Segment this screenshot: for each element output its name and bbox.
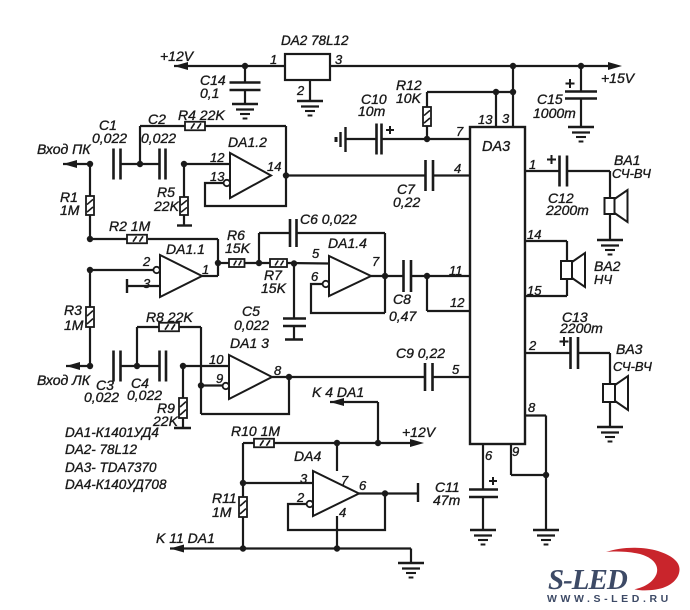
svg-text:BA3: BA3 [616, 341, 643, 357]
resistor R2 1M [90, 235, 218, 244]
capacitor C12 2200m [547, 155, 567, 187]
ground below pin 8/9 [533, 530, 559, 545]
svg-text:12: 12 [450, 295, 465, 310]
pin 7 label [372, 254, 380, 269]
svg-text:3: 3 [143, 276, 151, 291]
pin 15 label of DA3 [527, 283, 542, 298]
op-amp DA4 [313, 471, 359, 516]
pin 3 label of DA3 [502, 111, 510, 126]
wire to DA1.3 pin 10 [183, 365, 229, 367]
label R12 10K [396, 77, 422, 106]
svg-text:C2: C2 [148, 111, 166, 127]
svg-text:Вход ПК: Вход ПК [37, 141, 91, 157]
wire rail to ground [410, 549, 412, 564]
svg-text:1000m: 1000m [533, 105, 576, 121]
label C12 2200m [545, 190, 589, 218]
parts list line 4 [65, 477, 167, 492]
pin 12 label [450, 295, 465, 310]
node jumper/pin3 riser [510, 89, 516, 95]
op-amp DA1.3 [229, 355, 272, 399]
wire DA3 pin 1 to C12 [525, 170, 560, 172]
svg-text:2: 2 [296, 490, 305, 505]
node DA1.2 output [283, 172, 289, 178]
wire DA3 pin 8 [525, 416, 546, 531]
svg-text:Вход ЛК: Вход ЛК [37, 372, 91, 388]
wire C9 to DA3 pin 5 [433, 376, 471, 378]
svg-text:6: 6 [311, 269, 319, 284]
wire to DA1.2 pin 12 [184, 163, 230, 165]
label +12V (bottom) [402, 424, 437, 440]
pin 5 label [312, 246, 320, 261]
label DA4 [294, 448, 321, 464]
svg-text:22K: 22K [153, 198, 180, 214]
svg-text:1M: 1M [212, 504, 232, 520]
resistor R7 15K [270, 259, 287, 267]
label R6 15K [225, 227, 251, 256]
pin 6 label [311, 269, 319, 284]
ground below C11 [470, 530, 496, 545]
pin 3 label [300, 471, 308, 486]
wire C1 to C2 [121, 163, 160, 165]
label DA1.4 [328, 235, 367, 251]
wire connector to C10 [346, 138, 376, 140]
resistor R12 10K [423, 92, 431, 139]
wire DA1.2 feedback loop [205, 176, 286, 207]
wire BA3 to ground [609, 402, 611, 427]
inverting input circle DA1.3 pin 9 [223, 383, 229, 389]
node C15 junction [578, 63, 584, 69]
svg-text:13: 13 [478, 112, 493, 127]
node K4 junction [375, 440, 381, 446]
svg-text:11: 11 [449, 263, 463, 278]
wire R8 to feedback riser [179, 327, 201, 414]
svg-text:12: 12 [210, 150, 225, 165]
pin 9 label of DA3 [512, 444, 519, 459]
svg-text:DA1-К1401УД4: DA1-К1401УД4 [65, 425, 159, 440]
wire +15V input rail [330, 62, 622, 70]
svg-text:9: 9 [216, 371, 223, 386]
label C7 0,22 [393, 181, 420, 210]
svg-text:DA1.1: DA1.1 [166, 241, 205, 257]
power amplifier DA3 TDA7370 [470, 127, 525, 444]
label R8 22K [146, 309, 193, 325]
pin 11 label [449, 263, 463, 278]
wire K 11 DA1 rail [170, 545, 411, 553]
wire DA3 pin 2 to C13 [525, 352, 571, 354]
pin 7 label of DA3 [456, 124, 464, 139]
capacitor C8 0,47 [404, 260, 412, 292]
capacitor C9 0,22 [425, 363, 433, 391]
resistor R8 22K [159, 323, 179, 332]
ground below DA2 pin 2 [297, 101, 323, 116]
capacitor C2 0,022 [141, 130, 176, 180]
wire K 4 DA1 [330, 398, 378, 443]
svg-text:0,47: 0,47 [389, 308, 417, 324]
node pin8-pin9 [543, 472, 549, 478]
pin 2 label [296, 490, 305, 505]
arrow +12V (bottom) [410, 439, 424, 447]
svg-text:2200m: 2200m [545, 202, 589, 218]
svg-text:1: 1 [270, 52, 277, 67]
input arrow Вход ПК [63, 160, 90, 168]
pin 12 label [210, 150, 225, 165]
wire C3 to C4 [121, 365, 160, 367]
svg-text:7: 7 [341, 473, 349, 488]
svg-text:6: 6 [359, 478, 367, 493]
label C5 0,022 [234, 303, 269, 333]
label DA2 78L12 [281, 33, 349, 48]
svg-text:0,022: 0,022 [234, 317, 269, 333]
wire DA4 output [359, 492, 418, 494]
svg-text:DA1.2: DA1.2 [228, 134, 267, 150]
node jumper/pin13 [493, 89, 499, 95]
node DA4 pin 7 junction [334, 440, 340, 446]
input arrow Вход ЛК [66, 362, 90, 370]
wire BA1 to ground [609, 214, 611, 240]
pin 13 label [210, 169, 225, 184]
node input ПК [87, 161, 93, 167]
logo text WWW.S-LED.RU [547, 593, 672, 605]
pin 10 label [209, 352, 224, 367]
capacitor C6 0,022 [290, 219, 297, 247]
capacitor C10 10m (polarized) [377, 124, 395, 155]
wire DA3 pin 14 to BA2 [525, 241, 567, 261]
label C13 2200m [559, 309, 603, 336]
svg-text:S-LED: S-LED [548, 564, 628, 596]
svg-text:5: 5 [452, 362, 460, 377]
wire C6 riser [259, 233, 290, 263]
svg-text:4: 4 [454, 161, 461, 176]
op-amp DA1.2 [230, 153, 271, 198]
label DA1.1 [166, 241, 205, 257]
svg-text:0,022: 0,022 [141, 130, 176, 146]
wire C8 to split node [411, 275, 470, 277]
svg-text:0,022: 0,022 [92, 130, 127, 146]
inverting input circle DA1.1 pin 2 [153, 267, 159, 273]
svg-text:+15V: +15V [601, 70, 636, 86]
wire +12V output rail from DA2 pin 1 [174, 62, 285, 70]
node C3-C4 junction [134, 363, 140, 369]
parts list line 1 [65, 425, 159, 440]
svg-text:DA2 78L12: DA2 78L12 [281, 33, 349, 48]
pin 14 label of DA3 [527, 227, 541, 242]
parts list line 3 [65, 460, 157, 475]
svg-text:14: 14 [267, 159, 281, 174]
ground below BA1 [597, 240, 623, 255]
label C11 47m [433, 479, 461, 508]
parts list line 2 [65, 442, 138, 457]
svg-text:R8 22K: R8 22K [146, 309, 193, 325]
node input ЛК [87, 363, 93, 369]
node +15V rail to DA3 pin 3 [510, 63, 516, 69]
svg-text:8: 8 [528, 400, 536, 415]
wire DA3 pin 9 [511, 444, 546, 475]
inverting input circle DA1.2 pin 13 [224, 180, 230, 186]
label BA3 СЧ-ВЧ [613, 341, 652, 374]
pin 3 label of DA2 [335, 52, 343, 67]
svg-text:DA2- 78L12: DA2- 78L12 [65, 442, 138, 457]
wire riser to R4 [140, 126, 185, 164]
node C1-C2 junction [137, 161, 143, 167]
wire DA1.1 output [202, 275, 218, 277]
wire DA1.4 feedback loop [311, 284, 385, 313]
label Вход ПК [37, 141, 91, 157]
pin 2 stem of DA2 [296, 80, 310, 101]
svg-text:1: 1 [529, 157, 536, 172]
wire to DA1.4 pin 5 [287, 262, 329, 265]
capacitor C7 0,22 [426, 160, 434, 191]
svg-text:+12V: +12V [402, 424, 437, 440]
label R3 1M [64, 302, 84, 333]
label C8 0,47 [389, 291, 417, 324]
node pin 9 / riser [198, 382, 204, 388]
capacitor C1 0,022 [92, 117, 127, 180]
resistor R1 1M [86, 164, 94, 239]
resistor R6 15K [229, 259, 245, 267]
svg-text:WWW.S-LED.RU: WWW.S-LED.RU [547, 593, 672, 605]
node R10-R11-pin3 [240, 480, 246, 486]
resistor R9 22K [179, 366, 187, 428]
logo text S-LED [548, 564, 628, 596]
wire output to C9 [289, 376, 425, 378]
pin 1 label of DA3 [529, 157, 536, 172]
wire R2 riser to DA1.1 output [217, 239, 219, 276]
svg-text:5: 5 [312, 246, 320, 261]
pin 13 label of DA3 [478, 112, 493, 127]
pin 8 label [274, 363, 282, 378]
wire DA3 pin 3 riser [512, 66, 514, 127]
wire R6 to node A [245, 262, 271, 264]
wire DA1.3 feedback loop [201, 377, 289, 414]
label C15 1000m [533, 91, 576, 121]
node DA4 output [382, 490, 388, 496]
pin 1 label [202, 262, 209, 277]
svg-text:DA1.4: DA1.4 [328, 235, 367, 251]
node DA1.3 output [286, 374, 292, 380]
label C14 0,1 [200, 72, 226, 101]
svg-text:1: 1 [202, 262, 209, 277]
inverting input circle DA1.4 pin 6 [323, 281, 329, 287]
label +12V (top left) [160, 48, 195, 64]
contact bar DA4 output [417, 483, 419, 502]
node DA1.1 input [87, 267, 93, 273]
svg-text:2200m: 2200m [559, 320, 603, 336]
pin 1 label of DA2 [270, 52, 277, 67]
wire DA4 feedback loop [288, 494, 385, 531]
svg-text:DA3: DA3 [482, 139, 510, 155]
wire DA3 pin 6 [482, 444, 484, 490]
svg-text:15K: 15K [225, 240, 251, 256]
pin 2 label of DA3 [528, 338, 537, 353]
ground at rail end [398, 563, 424, 578]
pin 8 label of DA3 [528, 400, 536, 415]
svg-text:НЧ: НЧ [594, 272, 612, 287]
label DA1.2 [228, 134, 267, 150]
node pin11/pin12 split [424, 273, 430, 279]
svg-text:8: 8 [274, 363, 282, 378]
label R5 22K [153, 184, 180, 214]
svg-text:47m: 47m [433, 492, 461, 508]
ground below C14 [232, 104, 258, 119]
capacitor C3 0,022 [84, 351, 121, 406]
wire R12 top jumper [427, 91, 513, 93]
label BA2 НЧ [594, 258, 621, 287]
node C2-R5 junction [181, 161, 187, 167]
label R7 15K [261, 267, 287, 296]
svg-text:2: 2 [296, 83, 305, 98]
svg-text:0,22: 0,22 [393, 194, 420, 210]
label K 11 DA1 [156, 530, 215, 546]
node DA1.1 output / R6 [215, 260, 221, 266]
capacitor C4 0,022 [127, 351, 166, 404]
label C9 0,22 [396, 345, 445, 361]
svg-text:15K: 15K [261, 280, 287, 296]
svg-text:R2 1M: R2 1M [109, 218, 151, 234]
node DA1.4 output [382, 273, 388, 279]
ground below BA3 [597, 427, 623, 442]
svg-text:0,022: 0,022 [84, 389, 119, 405]
pin 6 label of DA3 [485, 448, 493, 463]
label DA3 [482, 139, 510, 155]
wire DA4 pin 3 [243, 482, 313, 484]
resistor R4 22K [185, 122, 205, 131]
label R4 22K [178, 107, 225, 123]
svg-text:10: 10 [209, 352, 224, 367]
wire DA1.2 output to C7 [286, 174, 426, 176]
svg-text:4: 4 [339, 505, 346, 520]
pin 2 label [142, 254, 151, 269]
inverting input circle DA4 pin 2 [307, 501, 313, 507]
label R10 1M [231, 423, 280, 439]
wire C10 to DA3 pin 7 [382, 138, 470, 140]
speaker BA2 [561, 253, 585, 287]
svg-text:R4 22K: R4 22K [178, 107, 225, 123]
svg-text:2: 2 [142, 254, 151, 269]
pin 14 label [267, 159, 281, 174]
wire C7 to DA3 pin 4 [433, 174, 470, 176]
pin 5 label of DA3 [452, 362, 460, 377]
node R2 junction [87, 236, 93, 242]
wire DA4 pin 7 riser [336, 443, 338, 471]
speaker BA3 [603, 376, 628, 410]
node R11 bottom [240, 545, 246, 551]
wire pin 9 [201, 384, 223, 386]
wire C6 to DA1.4 output riser [297, 233, 385, 313]
pin 6 label [359, 478, 367, 493]
svg-text:3: 3 [300, 471, 308, 486]
capacitor C14 [230, 66, 261, 104]
label C2 [148, 111, 166, 127]
svg-text:1M: 1M [60, 202, 80, 218]
svg-text:C6 0,022: C6 0,022 [300, 211, 357, 227]
wire to DA1.1 pin 2 [90, 269, 153, 271]
pin 4 label of DA3 [454, 161, 461, 176]
svg-text:C9 0,22: C9 0,22 [396, 345, 445, 361]
label C10 10m [358, 91, 387, 119]
capacitor C13 2200m [560, 337, 579, 369]
node R12 / pin 7 wire [424, 136, 430, 142]
svg-text:DA4-К140УД708: DA4-К140УД708 [65, 477, 167, 492]
contact bar DA1.1 pin 3 [126, 279, 128, 293]
label Вход ЛК [37, 372, 91, 388]
svg-text:DA4: DA4 [294, 448, 321, 464]
svg-text:0,1: 0,1 [200, 85, 219, 101]
label R2 1M [109, 218, 151, 234]
wire C12 to BA1 [567, 171, 610, 197]
pin 4 label [339, 505, 346, 520]
common tee below R9 [174, 427, 191, 429]
label R11 1M [212, 490, 237, 520]
wire pin 3 [127, 285, 160, 287]
ground below C15 [568, 127, 594, 142]
common tee below C5 [285, 338, 303, 340]
svg-text:K 11 DA1: K 11 DA1 [156, 530, 215, 546]
label +15V [601, 70, 636, 86]
label K 4 DA1 [312, 384, 364, 400]
wire C13 to BA3 [578, 353, 610, 384]
svg-text:6: 6 [485, 448, 493, 463]
label R9 22K [152, 400, 179, 429]
node C14 junction [242, 63, 248, 69]
svg-text:3: 3 [502, 111, 510, 126]
wire to DA3 pin 12 [427, 276, 470, 311]
node A (R6-R7-C6) [256, 260, 262, 266]
resistor R3 1M [86, 270, 94, 366]
svg-text:C8: C8 [393, 291, 411, 307]
wire output to C8 [371, 275, 404, 277]
speaker BA1 [605, 190, 628, 222]
svg-text:DA1 3: DA1 3 [230, 335, 269, 351]
pin 7 label [341, 473, 349, 488]
wire BA2 to DA3 pin 15 [525, 279, 567, 296]
svg-text:9: 9 [512, 444, 519, 459]
wire DA4 pin 4 riser [336, 516, 338, 549]
svg-text:K 4 DA1: K 4 DA1 [312, 384, 364, 400]
svg-text:14: 14 [527, 227, 541, 242]
wire riser to R8 [137, 327, 159, 366]
svg-text:1M: 1M [64, 317, 84, 333]
op-amp DA1.4 [329, 256, 371, 296]
wire output to R6 [218, 262, 229, 264]
label C6 0,022 [300, 211, 357, 227]
svg-text:R3: R3 [64, 302, 82, 318]
pin 9 label [216, 371, 223, 386]
capacitor C11 47m [469, 477, 498, 530]
svg-text:DA3- TDA7370: DA3- TDA7370 [65, 460, 157, 475]
svg-text:10K: 10K [396, 90, 422, 106]
svg-text:+12V: +12V [160, 48, 195, 64]
node DA4 pin 4 bottom [334, 545, 340, 551]
svg-text:СЧ-ВЧ: СЧ-ВЧ [612, 166, 651, 181]
label R1 1M [60, 189, 80, 218]
svg-text:R10 1M: R10 1M [231, 423, 280, 439]
pin 3 label [143, 276, 151, 291]
voltage regulator DA2 78L12 [285, 54, 330, 80]
svg-text:3: 3 [335, 52, 343, 67]
logo red swoosh [606, 548, 680, 591]
wire R4 to output node [205, 126, 286, 176]
wire DA3 pin 13 riser [495, 92, 497, 127]
resistor R5 22K [180, 164, 188, 226]
capacitor C5 0,022 [283, 264, 306, 340]
svg-text:7: 7 [372, 254, 380, 269]
node C4-R9 junction [180, 363, 186, 369]
connector mark at C10 input [335, 127, 346, 152]
label BA1 СЧ-ВЧ [612, 152, 651, 181]
wire R10 left riser [242, 443, 244, 483]
op-amp DA1.1 [160, 255, 202, 297]
wire DA1.3 output [272, 376, 289, 378]
